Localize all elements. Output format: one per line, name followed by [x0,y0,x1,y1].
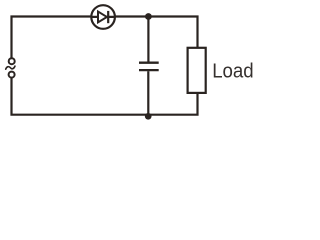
op-amp circle: diode D1 envelope [91,5,115,29]
wire: left-bottom + bottom + right-bottom segment [12,78,198,115]
capacitor C1 bottom plate [139,69,159,71]
svg-text:Load: Load [212,61,254,83]
diode D1 cathode bar [107,11,109,23]
node: bottom junction [145,113,152,120]
terminal: AC input bottom [9,72,15,78]
wire: left + top + right-top segment [12,17,198,58]
wire: capacitor bottom lead [147,71,149,115]
wire: diode internal lead [91,16,115,18]
AC tilde symbol [6,66,15,69]
terminal: AC input top [9,58,15,64]
wire: capacitor top lead [147,17,149,62]
resistor: load box [188,48,206,93]
node: top junction [145,13,152,20]
diode D1 triangle [98,12,107,23]
capacitor C1 top plate [139,62,159,64]
